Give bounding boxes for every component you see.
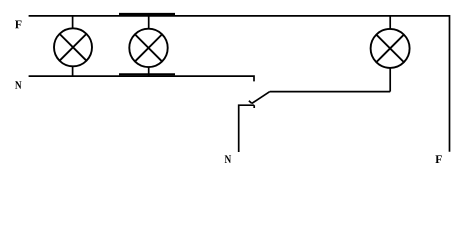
- switch S1 pole wire from bottom N terminal: [239, 105, 255, 152]
- switch S1 blade: [249, 92, 270, 104]
- node label N left: [15, 81, 21, 89]
- node label F top left: [15, 21, 22, 29]
- lamp L1: [54, 16, 92, 77]
- lamp L3: [371, 16, 410, 92]
- node label N bottom middle: [225, 155, 231, 163]
- node label F bottom right: [435, 155, 441, 163]
- wire from switch blade to lamp L3: [270, 91, 390, 93]
- wire N bus: [29, 74, 254, 81]
- lamp L2: [129, 16, 167, 77]
- wire F top bus: [29, 14, 450, 152]
